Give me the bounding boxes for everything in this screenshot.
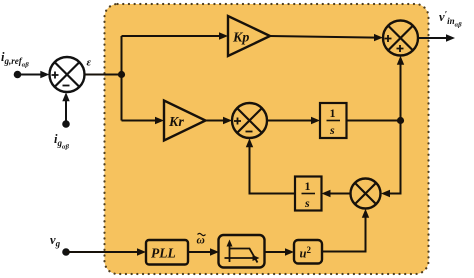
wire vg to PLL bbox=[66, 248, 146, 255]
block PLL bbox=[146, 240, 188, 265]
summing junction S2 bbox=[383, 21, 418, 56]
node branch junction bbox=[118, 71, 125, 78]
wire Kr to S3 bbox=[206, 117, 233, 124]
integrator block 1/s (lower) bbox=[295, 177, 322, 211]
wire filter to u2 bbox=[265, 248, 295, 255]
wire ig_ab to S1 minus input bbox=[62, 92, 69, 124]
wire integrator2 to S3 minus input bbox=[246, 138, 295, 193]
node junction after integrator bbox=[397, 117, 404, 124]
svg-text:s: s bbox=[329, 123, 335, 137]
label epsilon bbox=[87, 57, 92, 69]
svg-text:s: s bbox=[304, 196, 310, 210]
label v'in_ab bbox=[439, 10, 462, 29]
summing junction S1 bbox=[50, 57, 85, 92]
wire S1 to branch node bbox=[85, 74, 122, 76]
svg-text:Kp: Kp bbox=[232, 31, 249, 46]
wire ig,ref to S1 bbox=[18, 71, 50, 78]
svg-text:1: 1 bbox=[330, 106, 336, 120]
wire branch to Kp bbox=[122, 32, 229, 39]
node vg dot bbox=[62, 248, 70, 256]
wire u2 to multiplier bbox=[322, 209, 369, 252]
multiplier M bbox=[351, 179, 381, 209]
gain block Kr bbox=[164, 101, 206, 141]
wire branch to Kr bbox=[122, 117, 165, 124]
node ig,ref input dot bbox=[14, 71, 22, 79]
svg-text:ig,refαβ: ig,refαβ bbox=[1, 50, 29, 69]
svg-text:1: 1 bbox=[305, 179, 311, 193]
svg-text:igαβ: igαβ bbox=[54, 132, 70, 151]
wire junction down to multiplier bbox=[381, 121, 401, 198]
wire branch vertical bbox=[121, 36, 123, 121]
label vg bbox=[50, 233, 61, 249]
block u squared bbox=[294, 240, 322, 264]
label ig_ab bbox=[54, 132, 70, 151]
gain block Kp bbox=[228, 16, 270, 56]
integrator block 1/s (upper) bbox=[320, 103, 347, 138]
wire PLL to filter bbox=[188, 248, 219, 255]
label ig,ref_ab bbox=[1, 50, 29, 69]
summing junction S3 bbox=[232, 103, 267, 138]
svg-text:Kr: Kr bbox=[168, 115, 184, 130]
wire integrator1 to junction bbox=[347, 120, 401, 122]
controller region (orange dashed panel) bbox=[105, 4, 429, 274]
svg-text:ω: ω bbox=[197, 235, 205, 247]
svg-text:v′inαβ: v′inαβ bbox=[439, 10, 462, 29]
wire S2 output bbox=[418, 34, 455, 41]
svg-text:ε: ε bbox=[87, 57, 92, 69]
node ig_ab dot bbox=[62, 120, 70, 128]
svg-text:vg: vg bbox=[50, 233, 61, 249]
label omega tilde bbox=[197, 233, 206, 246]
wire S3 to integrator 1 bbox=[267, 117, 320, 124]
svg-text:PLL: PLL bbox=[151, 246, 176, 261]
wire Kp to S2 bbox=[270, 34, 383, 41]
block low-pass filter bbox=[219, 235, 265, 268]
wire junction to S2 plus input bbox=[397, 56, 404, 121]
wire multiplier to integrator 2 bbox=[322, 190, 351, 197]
